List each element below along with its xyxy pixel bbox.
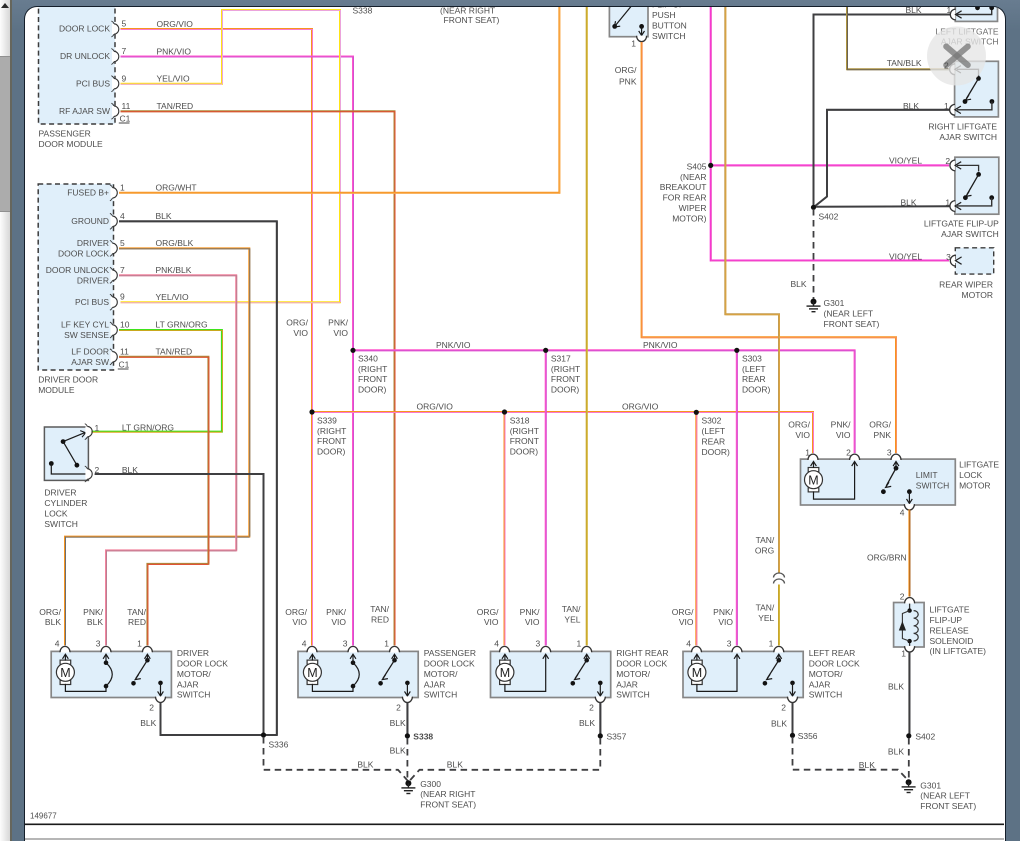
svg-text:RF AJAR SW: RF AJAR SW <box>59 106 110 116</box>
svg-text:ORG/: ORG/ <box>286 607 308 617</box>
labels ORG/VIO PNK/VIO TAN/YEL right rear lock pins <box>477 605 581 628</box>
wire PNK/VIO S317 branch to right rear lock pin3 <box>545 351 548 652</box>
svg-text:RELEASE: RELEASE <box>930 626 970 636</box>
svg-text:S356: S356 <box>798 731 818 741</box>
wire PNK/BLK driver pin7 to driver lock pin3 <box>106 276 237 652</box>
wire BLK dashed S357 to G300 <box>409 738 600 782</box>
labels VIO/YEL <box>889 156 922 262</box>
svg-text:TAN/RED: TAN/RED <box>157 101 194 111</box>
svg-text:4: 4 <box>120 211 125 221</box>
motor: rear wiper motor <box>939 248 994 300</box>
svg-text:MOTOR/: MOTOR/ <box>809 669 843 679</box>
wire BLK solenoid pin1 to S402 <box>888 652 910 735</box>
svg-text:5: 5 <box>120 238 125 248</box>
svg-text:BLK: BLK <box>156 211 172 221</box>
svg-text:REAR: REAR <box>702 437 726 447</box>
svg-text:PASSENGER: PASSENGER <box>424 648 476 658</box>
svg-text:M: M <box>308 666 318 680</box>
svg-text:ORG: ORG <box>755 546 774 556</box>
svg-text:DOOR): DOOR) <box>510 447 539 457</box>
svg-text:LIFTGATE: LIFTGATE <box>959 460 999 470</box>
wire LT GRN/ORG driver pin10 to cylinder lock switch pin1 <box>90 330 223 432</box>
svg-text:LIMIT: LIMIT <box>916 470 938 480</box>
wire BLK dashed S402 to G301 <box>813 209 815 299</box>
svg-text:SWITCH: SWITCH <box>45 519 79 529</box>
svg-text:FRONT: FRONT <box>317 437 346 447</box>
svg-text:SW SENSE: SW SENSE <box>64 330 109 340</box>
svg-text:4: 4 <box>55 639 60 649</box>
svg-text:AJAR: AJAR <box>177 680 199 690</box>
svg-text:FOR REAR: FOR REAR <box>663 193 707 203</box>
svg-text:PCI BUS: PCI BUS <box>76 79 110 89</box>
svg-text:PNK/: PNK/ <box>326 607 346 617</box>
svg-text:PNK: PNK <box>619 77 637 87</box>
svg-text:S357: S357 <box>607 732 627 742</box>
svg-text:SWITCH: SWITCH <box>916 481 950 491</box>
svg-text:PASSENGER: PASSENGER <box>39 129 91 139</box>
svg-text:BLK: BLK <box>390 746 406 756</box>
wire PNK/VIO bus S340-S317-S303 to liftgate lock pin2 <box>353 351 855 460</box>
svg-text:TAN/: TAN/ <box>756 603 775 613</box>
svg-text:1: 1 <box>120 183 125 193</box>
svg-text:FRONT SEAT): FRONT SEAT) <box>421 800 477 810</box>
svg-text:TAN/: TAN/ <box>371 605 390 615</box>
svg-text:FRONT: FRONT <box>551 375 580 385</box>
svg-text:VIO/YEL: VIO/YEL <box>889 252 922 262</box>
lower section divider line <box>23 838 1004 840</box>
svg-text:LOCK: LOCK <box>45 509 68 519</box>
svg-text:AJAR: AJAR <box>809 680 831 690</box>
wire labels driver module <box>156 183 208 357</box>
svg-text:RIGHT REAR: RIGHT REAR <box>617 648 669 658</box>
wire PNK/VIO passenger pin7 to S340 to passenger lock pin3 <box>121 57 354 652</box>
wire ORG/VIO S302 branch to left rear lock pin4 <box>696 412 699 651</box>
node S339 <box>310 410 347 457</box>
scrollbar up arrow <box>1 3 9 8</box>
switch: driver cylinder lock switch <box>45 423 100 529</box>
node S317 <box>543 348 580 395</box>
svg-text:ORG/: ORG/ <box>870 420 892 430</box>
svg-text:(NEAR: (NEAR <box>680 172 706 182</box>
svg-text:SWITCH: SWITCH <box>809 690 843 700</box>
svg-text:(RIGHT: (RIGHT <box>510 426 539 436</box>
svg-text:VIO: VIO <box>679 618 694 628</box>
svg-text:DOOR): DOOR) <box>742 385 771 395</box>
svg-text:M: M <box>809 474 819 488</box>
ground G301 near left front seat (upper) <box>807 299 880 330</box>
svg-text:VIO: VIO <box>332 618 347 628</box>
svg-text:PCI BUS: PCI BUS <box>75 297 109 307</box>
svg-text:MOTOR: MOTOR <box>962 290 993 300</box>
svg-text:YEL: YEL <box>759 613 775 623</box>
svg-text:S338: S338 <box>353 6 373 16</box>
svg-text:AJAR: AJAR <box>424 680 446 690</box>
connector: driver door module <box>39 183 131 396</box>
svg-text:BLK: BLK <box>141 718 157 728</box>
svg-text:S338: S338 <box>414 732 434 742</box>
svg-text:4: 4 <box>302 639 307 649</box>
svg-text:1: 1 <box>137 639 142 649</box>
motor: liftgate lock motor with limit switch <box>801 448 1000 518</box>
svg-text:1: 1 <box>95 423 100 433</box>
switch: left rear door lock motor/ajar switch <box>683 639 860 713</box>
svg-text:3: 3 <box>343 639 348 649</box>
svg-text:ORG/VIO: ORG/VIO <box>622 402 659 412</box>
wire BLK dashed S336 to G300 <box>264 737 409 782</box>
svg-text:BLK: BLK <box>888 682 904 692</box>
svg-text:(RIGHT: (RIGHT <box>358 364 387 374</box>
node S302 <box>694 410 730 457</box>
svg-text:3: 3 <box>946 253 951 263</box>
svg-text:2: 2 <box>846 448 851 458</box>
svg-text:ORG/BLK: ORG/BLK <box>156 238 194 248</box>
node S357 <box>598 732 627 742</box>
wire PNK/VIO S303 branch to left rear lock pin3 <box>736 351 739 652</box>
node S405 <box>660 162 714 224</box>
labels ORG/VIO PNK/VIO left rear lock pins <box>672 607 734 627</box>
svg-text:MOTOR/: MOTOR/ <box>177 669 211 679</box>
svg-text:YEL: YEL <box>565 615 581 625</box>
wire TAN/RED passenger pin11 to passenger lock pin1 <box>121 112 396 652</box>
svg-text:S402: S402 <box>916 732 936 742</box>
switch: liftgate flip-up ajar switch <box>924 158 999 240</box>
svg-text:YEL/VIO: YEL/VIO <box>156 292 189 302</box>
wire labels ORG/VIO PNK/VIO verticals <box>287 318 349 338</box>
svg-text:DOOR LOCK: DOOR LOCK <box>617 659 668 669</box>
switch: driver door lock motor/ajar switch <box>52 639 229 713</box>
svg-text:PNK/VIO: PNK/VIO <box>157 47 192 57</box>
svg-text:AJAR SWITCH: AJAR SWITCH <box>941 229 999 239</box>
svg-text:DOOR UNLOCK: DOOR UNLOCK <box>46 265 110 275</box>
svg-text:VIO: VIO <box>836 430 851 440</box>
wire BLK driver pin4 ground to S336 <box>119 222 277 736</box>
svg-text:REAR: REAR <box>742 375 766 385</box>
svg-text:BLK: BLK <box>903 101 919 111</box>
svg-text:VIO: VIO <box>796 430 811 440</box>
svg-text:PNK/: PNK/ <box>831 420 851 430</box>
svg-text:BLK: BLK <box>87 618 103 628</box>
svg-text:VIO/YEL: VIO/YEL <box>889 156 922 166</box>
wire ORG/WHT driver pin1 fused B+ <box>119 5 560 193</box>
wire BLK right rear lock pin2 to S357 <box>579 703 601 735</box>
svg-text:(NEAR LEFT: (NEAR LEFT <box>921 791 971 801</box>
svg-text:FRONT SEAT): FRONT SEAT) <box>921 801 977 811</box>
svg-text:AJAR SWITCH: AJAR SWITCH <box>940 132 998 142</box>
svg-text:LT GRN/ORG: LT GRN/ORG <box>122 423 174 433</box>
svg-text:(NEAR RIGHT: (NEAR RIGHT <box>421 790 476 800</box>
svg-text:FRONT SEAT): FRONT SEAT) <box>824 319 880 329</box>
wire BLK right liftgate ajar pin1 to S402 <box>815 110 951 207</box>
svg-text:RED: RED <box>371 615 389 625</box>
svg-text:S405: S405 <box>687 162 707 172</box>
svg-text:FRONT: FRONT <box>358 375 387 385</box>
svg-text:GROUND: GROUND <box>72 216 110 226</box>
node S340 <box>351 348 388 395</box>
switch: right rear door lock motor/ajar switch <box>491 639 669 713</box>
svg-text:TAN/BLK: TAN/BLK <box>887 59 922 69</box>
svg-text:7: 7 <box>122 46 127 56</box>
wire VIO/YEL from top through S405 to rear wiper motor pin3 <box>711 5 949 261</box>
svg-text:BLK: BLK <box>791 280 807 290</box>
svg-text:ORG/: ORG/ <box>789 420 811 430</box>
svg-text:PNK/: PNK/ <box>328 318 348 328</box>
svg-text:DOOR LOCK: DOOR LOCK <box>809 659 860 669</box>
wire ORG/BLK driver pin5 to driver lock pin4 <box>65 249 250 652</box>
svg-text:S340: S340 <box>358 354 378 364</box>
svg-text:ORG/WHT: ORG/WHT <box>156 183 197 193</box>
diagram number 149677 <box>30 812 57 821</box>
svg-text:ORG/: ORG/ <box>672 607 694 617</box>
svg-text:LOCK: LOCK <box>959 470 982 480</box>
node S402 top <box>811 205 839 222</box>
svg-text:ORG/: ORG/ <box>287 318 309 328</box>
wire TAN/ORG from top to inline break <box>726 5 780 573</box>
wire BLK cylinder lock pin2 to S336 <box>95 474 264 734</box>
svg-text:DOOR LOCK: DOOR LOCK <box>58 249 109 259</box>
svg-text:BLK: BLK <box>901 198 917 208</box>
svg-text:TAN/: TAN/ <box>128 607 147 617</box>
svg-text:FLIP-UP: FLIP-UP <box>652 6 685 10</box>
svg-text:S303: S303 <box>742 354 762 364</box>
svg-text:PNK/: PNK/ <box>713 607 733 617</box>
wire BLK dashed S402 to G301 <box>888 738 909 781</box>
svg-text:DOOR): DOOR) <box>551 385 580 395</box>
switch: flip-up push button switch <box>610 0 687 49</box>
svg-text:G301: G301 <box>824 299 845 309</box>
wire YEL/VIO PCI BUS passenger pin9 to driver pin9 <box>121 10 341 303</box>
node S336 <box>261 733 289 750</box>
labels ORG/VIO bus <box>417 402 659 412</box>
wire BLK left rear lock pin2 to S356 <box>771 703 793 735</box>
wire ORG/PNK push button pin1 to liftgate lock pin3 <box>642 42 897 459</box>
svg-text:LF KEY CYL: LF KEY CYL <box>61 320 109 330</box>
svg-text:9: 9 <box>120 292 125 302</box>
svg-text:3: 3 <box>727 639 732 649</box>
svg-text:FLIP-UP: FLIP-UP <box>930 615 963 625</box>
svg-text:1: 1 <box>769 639 774 649</box>
node S402 bottom <box>907 732 936 742</box>
svg-text:LEFT REAR: LEFT REAR <box>809 648 856 658</box>
svg-text:BLK: BLK <box>888 747 904 757</box>
svg-text:(LEFT: (LEFT <box>702 426 726 436</box>
labels ORG/VIO PNK/VIO TAN/RED passenger lock pins <box>286 605 390 628</box>
svg-text:BREAKOUT: BREAKOUT <box>660 183 707 193</box>
svg-text:BLK: BLK <box>771 719 787 729</box>
wire BLK left liftgate ajar pin1 to S402 <box>814 15 951 207</box>
svg-text:1: 1 <box>577 639 582 649</box>
svg-text:MODULE: MODULE <box>39 385 76 395</box>
solenoid: liftgate flip-up release solenoid <box>894 592 987 659</box>
svg-text:PNK/VIO: PNK/VIO <box>643 340 678 350</box>
ground G300 near right front seat <box>402 779 477 810</box>
svg-text:DOOR LOCK: DOOR LOCK <box>177 659 228 669</box>
svg-text:PNK/: PNK/ <box>83 607 103 617</box>
svg-text:(RIGHT: (RIGHT <box>317 426 346 436</box>
wire BLK dashed S356 to G301 <box>793 737 909 781</box>
svg-text:SWITCH: SWITCH <box>617 690 651 700</box>
svg-text:ORG/VIO: ORG/VIO <box>157 19 194 29</box>
svg-text:1: 1 <box>946 198 951 208</box>
svg-text:DRIVER: DRIVER <box>77 276 109 286</box>
labels ORG/VIO PNK/VIO ORG/PNK liftgate lock pins <box>789 420 892 440</box>
labels TAN/ORG TAN/YEL <box>755 536 775 624</box>
svg-text:3: 3 <box>536 639 541 649</box>
close button <box>927 27 986 86</box>
svg-text:TAN/: TAN/ <box>562 605 581 615</box>
svg-text:2: 2 <box>396 703 401 713</box>
wire TAN/YEL from top to right rear lock pin1 <box>586 5 589 651</box>
svg-text:RED: RED <box>128 618 146 628</box>
svg-text:PUSH: PUSH <box>652 10 676 20</box>
svg-text:ORG/BRN: ORG/BRN <box>867 553 907 563</box>
label ORG/PNK <box>615 65 637 87</box>
svg-text:2: 2 <box>946 157 951 167</box>
svg-text:AJAR SW: AJAR SW <box>72 357 110 367</box>
svg-text:DOOR MODULE: DOOR MODULE <box>39 139 104 149</box>
svg-text:11: 11 <box>122 101 131 111</box>
node S318 <box>502 410 539 457</box>
svg-text:4: 4 <box>687 639 692 649</box>
svg-text:DR UNLOCK: DR UNLOCK <box>60 51 110 61</box>
svg-text:BLK: BLK <box>579 718 595 728</box>
svg-text:C1: C1 <box>120 114 131 124</box>
svg-text:5: 5 <box>122 19 127 29</box>
svg-text:DOOR): DOOR) <box>317 447 346 457</box>
svg-text:2: 2 <box>782 703 787 713</box>
svg-text:4: 4 <box>900 508 905 518</box>
svg-text:1: 1 <box>385 639 390 649</box>
ground G301 near left front seat (lower) <box>902 780 977 812</box>
labels ORG/BLK PNK/BLK TAN/RED driver lock pins <box>40 607 147 627</box>
svg-text:4: 4 <box>495 639 500 649</box>
svg-text:DRIVER: DRIVER <box>45 488 77 498</box>
svg-text:PNK/BLK: PNK/BLK <box>156 265 192 275</box>
svg-text:FRONT SEAT): FRONT SEAT) <box>444 15 500 25</box>
node S356 <box>790 731 818 741</box>
labels PNK/VIO bus <box>436 340 678 350</box>
svg-text:2: 2 <box>589 703 594 713</box>
svg-text:2: 2 <box>150 703 155 713</box>
svg-text:VIO: VIO <box>293 618 308 628</box>
svg-text:LT GRN/ORG: LT GRN/ORG <box>156 320 208 330</box>
svg-text:(LEFT: (LEFT <box>742 364 766 374</box>
svg-text:3: 3 <box>96 639 101 649</box>
svg-text:LIFTGATE FLIP-UP: LIFTGATE FLIP-UP <box>924 219 999 229</box>
svg-text:S318: S318 <box>510 416 530 426</box>
svg-text:WIPER: WIPER <box>679 203 707 213</box>
svg-text:C1: C1 <box>119 360 130 370</box>
svg-text:SWITCH: SWITCH <box>652 31 686 41</box>
svg-text:FUSED B+: FUSED B+ <box>68 188 110 198</box>
svg-text:CYLINDER: CYLINDER <box>45 498 88 508</box>
svg-text:S302: S302 <box>702 416 722 426</box>
svg-text:7: 7 <box>120 265 125 275</box>
svg-text:DOOR LOCK: DOOR LOCK <box>59 24 110 34</box>
wire BLK dashed S338 to G300 <box>390 738 408 781</box>
svg-text:1: 1 <box>806 448 811 458</box>
svg-text:SWITCH: SWITCH <box>424 690 458 700</box>
svg-text:M: M <box>61 666 71 680</box>
svg-text:149677: 149677 <box>30 812 57 821</box>
svg-text:BLK: BLK <box>447 760 463 770</box>
svg-text:DOOR LOCK: DOOR LOCK <box>424 659 475 669</box>
svg-text:DRIVER DOOR: DRIVER DOOR <box>39 375 99 385</box>
wire ORG/VIO S318 branch to right rear lock pin4 <box>504 412 507 651</box>
scrollbar thumb <box>0 56 10 212</box>
svg-text:BLK: BLK <box>45 618 61 628</box>
svg-text:DRIVER: DRIVER <box>177 648 209 658</box>
svg-text:YEL/VIO: YEL/VIO <box>157 74 190 84</box>
wire BLK driver lock pin2 to S336 <box>141 703 263 736</box>
svg-text:PNK/: PNK/ <box>520 607 540 617</box>
svg-text:FRONT: FRONT <box>510 437 539 447</box>
wire label LT GRN/ORG and BLK cylinder switch <box>122 423 174 475</box>
wire ORG/VIO passenger pin5 to S339 to passenger lock pin4 <box>121 29 313 651</box>
svg-text:(NEAR LEFT: (NEAR LEFT <box>824 309 874 319</box>
svg-text:SWITCH: SWITCH <box>177 690 211 700</box>
svg-text:BLK: BLK <box>906 6 922 15</box>
svg-text:G300: G300 <box>421 779 442 789</box>
switch: left liftgate ajar switch <box>936 0 999 47</box>
svg-text:PNK: PNK <box>874 430 892 440</box>
svg-text:S317: S317 <box>551 354 571 364</box>
wire labels passenger module <box>157 19 194 111</box>
wire ORG/VIO bus S339-S318-S302 to liftgate lock pin1 <box>312 412 814 459</box>
svg-text:DRIVER: DRIVER <box>77 238 109 248</box>
wire TAN/RED driver pin11 to driver lock pin1 <box>119 357 209 652</box>
svg-text:PNK/VIO: PNK/VIO <box>436 340 471 350</box>
svg-text:TAN/RED: TAN/RED <box>156 347 193 357</box>
svg-text:1: 1 <box>902 649 907 659</box>
wire VIO/YEL S405 branch to liftgate flip-up ajar switch pin2 <box>711 165 949 168</box>
svg-text:(RIGHT: (RIGHT <box>551 364 580 374</box>
labels right column <box>887 5 952 262</box>
svg-text:S402: S402 <box>819 212 839 222</box>
wire ORG/BRN liftgate lock pin4 to release solenoid pin2 <box>909 510 912 599</box>
svg-text:2: 2 <box>944 61 949 71</box>
svg-text:ORG/VIO: ORG/VIO <box>417 402 454 412</box>
svg-text:VIO: VIO <box>294 328 309 338</box>
svg-text:MOTOR/: MOTOR/ <box>424 669 458 679</box>
svg-text:M: M <box>500 666 510 680</box>
svg-text:BLK: BLK <box>390 718 406 728</box>
svg-text:(IN LIFTGATE): (IN LIFTGATE) <box>930 647 987 657</box>
svg-text:10: 10 <box>120 320 130 330</box>
svg-text:MOTOR: MOTOR <box>959 481 990 491</box>
node S338 splice <box>405 732 434 742</box>
wire BLK passenger lock pin2 to S338 <box>390 703 408 735</box>
svg-text:VIO: VIO <box>484 618 499 628</box>
svg-text:LF DOOR: LF DOOR <box>72 347 110 357</box>
wire BLK liftgate flip-up ajar pin1 to S402 <box>814 206 951 209</box>
svg-text:ORG/: ORG/ <box>615 65 637 75</box>
switch: right liftgate ajar switch <box>929 62 999 143</box>
svg-text:VIO: VIO <box>334 328 349 338</box>
svg-text:REAR WIPER: REAR WIPER <box>939 280 993 290</box>
svg-text:VIO: VIO <box>719 618 734 628</box>
svg-text:BUTTON: BUTTON <box>652 21 687 31</box>
svg-text:BLK: BLK <box>358 760 374 770</box>
node S303 <box>735 348 771 395</box>
inline connector break on tan wire <box>774 573 785 584</box>
svg-text:S336: S336 <box>269 740 289 750</box>
wire TAN/BLK from top to right liftgate ajar pin2 <box>847 5 950 70</box>
svg-text:1: 1 <box>947 6 952 15</box>
node S338 (top, near right front seat) <box>353 6 500 26</box>
svg-text:DOOR): DOOR) <box>702 447 731 457</box>
svg-text:9: 9 <box>122 74 127 84</box>
svg-text:ORG/: ORG/ <box>477 607 499 617</box>
